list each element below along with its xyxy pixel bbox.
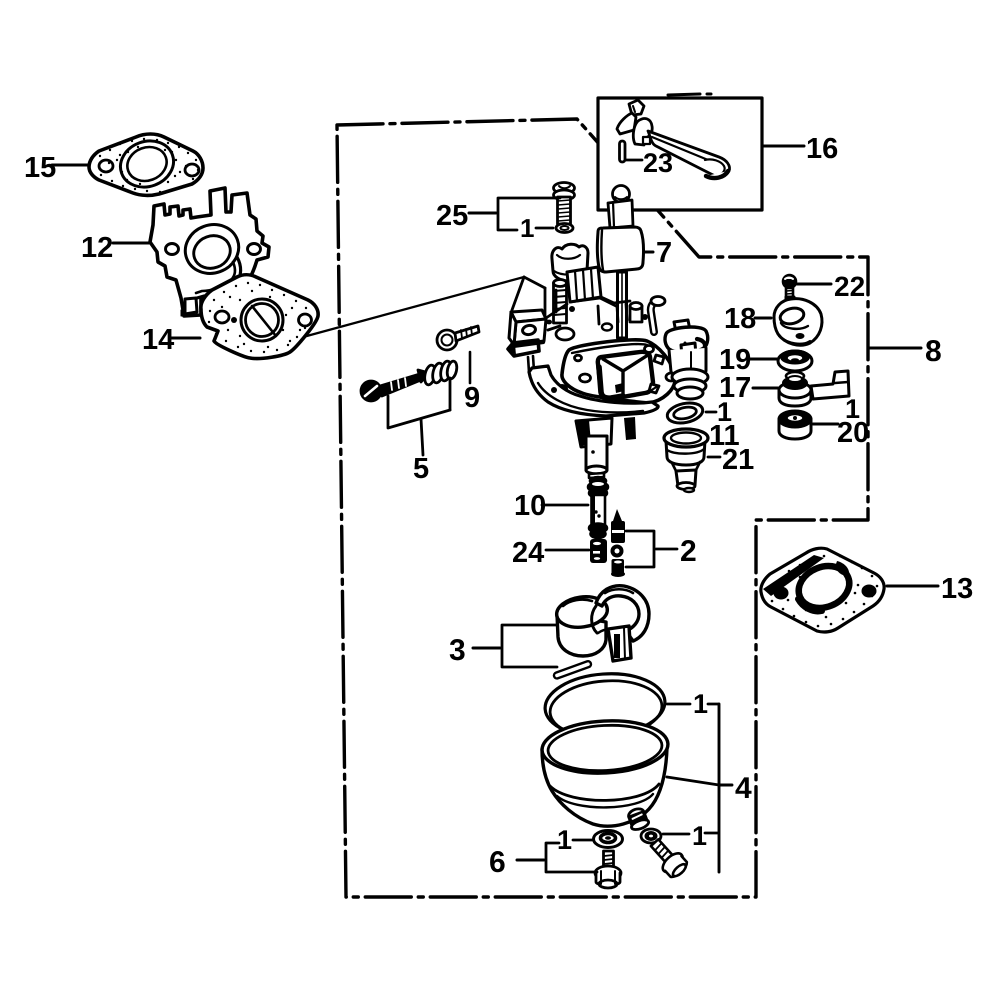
box 16 [598, 98, 762, 210]
svg-text:18: 18 [724, 303, 756, 335]
svg-text:2: 2 [680, 535, 697, 568]
throttle shaft top (above part 7) [608, 186, 633, 229]
legs under body [576, 417, 636, 447]
screw 25 [554, 183, 575, 233]
bracket 6 [517, 843, 597, 872]
float bowl 4 [541, 718, 670, 826]
svg-text:8: 8 [925, 335, 942, 368]
bottom tube [586, 436, 607, 478]
svg-text:1: 1 [693, 689, 708, 719]
pointed tab [508, 340, 539, 356]
svg-text:21: 21 [722, 444, 754, 476]
svg-text:25: 25 [436, 200, 468, 232]
main flange plate [562, 340, 675, 403]
label 25 with bracket and 1 [469, 198, 560, 230]
washer 19 [778, 351, 812, 372]
venturi bore [598, 352, 653, 399]
svg-text:4: 4 [735, 772, 752, 805]
drain screw 6 [595, 851, 621, 888]
svg-text:15: 15 [24, 152, 56, 184]
left bracket block [509, 310, 546, 345]
svg-text:24: 24 [512, 537, 544, 569]
svg-text:3: 3 [449, 634, 466, 667]
alignment leader from gasket 14 to body [270, 277, 524, 346]
screw 9 [437, 326, 479, 350]
body deck edges [512, 277, 630, 330]
sweeping C-arm [529, 366, 658, 416]
svg-text:16: 16 [806, 133, 838, 165]
bowl o-ring 1 [543, 670, 667, 741]
svg-text:9: 9 [464, 382, 480, 414]
svg-text:12: 12 [81, 232, 113, 264]
label 7 [645, 251, 653, 254]
choke arm plate 18 [774, 297, 822, 345]
screw 5 with spring [361, 360, 458, 401]
bolt (right, tilted) [646, 835, 691, 881]
label 23 [626, 159, 642, 162]
gasket 13 [761, 548, 884, 632]
svg-text:1: 1 [520, 213, 534, 243]
float pin [553, 660, 592, 679]
wavy-top boss [552, 244, 588, 281]
o-ring 1/11 [665, 400, 704, 426]
main nozzle 10 [588, 477, 608, 538]
screw 22 [783, 275, 796, 297]
svg-text:23: 23 [643, 148, 673, 178]
svg-text:13: 13 [941, 573, 973, 605]
washer 1 (left) [594, 831, 623, 848]
choke lever (inside box 16) [617, 100, 730, 178]
phantom assembly boundary (dash-dot box) [337, 119, 868, 897]
svg-text:1: 1 [692, 821, 707, 851]
gasket 15 [89, 134, 203, 196]
label 8 [869, 347, 921, 350]
fuel inlet elbow pipe [651, 301, 658, 332]
svg-text:1: 1 [557, 825, 572, 855]
gasket 14 [201, 275, 318, 359]
pin 23 [620, 141, 626, 162]
label 3 bracket [473, 625, 557, 667]
bushing with lever 17 [779, 371, 849, 406]
svg-text:14: 14 [142, 324, 174, 356]
svg-text:10: 10 [514, 490, 546, 522]
svg-text:7: 7 [656, 237, 672, 269]
vertical slab [567, 267, 601, 302]
washer 1 (right) [641, 829, 661, 843]
choke plate 7 [597, 227, 643, 338]
insulator 12 [150, 188, 269, 316]
stray dash-dot above box 16 [668, 94, 711, 95]
bowl drain bolt [626, 807, 650, 832]
float valve seat 21 [664, 429, 708, 492]
svg-text:6: 6 [489, 846, 506, 879]
small stub [630, 303, 642, 323]
grommet 20 [779, 411, 811, 439]
threaded stud [554, 280, 575, 341]
svg-text:20: 20 [837, 417, 869, 449]
float 3 [555, 586, 649, 661]
fuel valve tower [665, 320, 708, 399]
bracket 4 [667, 704, 732, 872]
main jet 24 [590, 539, 607, 563]
svg-text:5: 5 [413, 453, 429, 485]
plate holes [575, 346, 677, 394]
float valve needle set 2 [611, 509, 626, 577]
label 16 [763, 145, 804, 148]
svg-text:22: 22 [834, 271, 865, 302]
